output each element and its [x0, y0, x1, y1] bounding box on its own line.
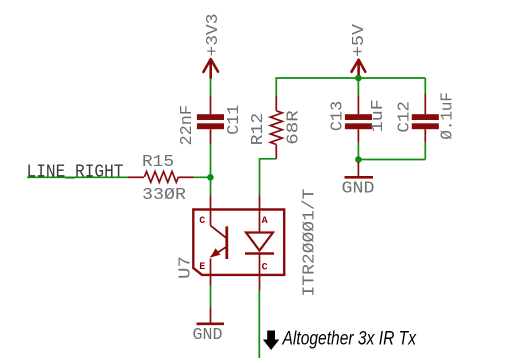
svg-text:22nF: 22nF	[177, 105, 196, 146]
svg-text:R15: R15	[142, 152, 174, 171]
power symbol +5V	[349, 24, 368, 76]
wire C11 to junction	[210, 144, 212, 178]
LED cathode bar	[245, 252, 274, 255]
svg-text:Altogether 3x IR Tx: Altogether 3x IR Tx	[282, 328, 418, 349]
wire R15 to junction	[194, 176, 211, 178]
wire C13 to bottom junction	[357, 142, 359, 160]
wire U7 emitter to GND	[210, 285, 212, 308]
optocoupler U7 ITR20001/T	[176, 188, 319, 296]
junction node at C13 bottom	[355, 156, 362, 163]
annotation arrow (black down arrow)	[263, 331, 279, 351]
power symbol +3V3	[203, 14, 222, 79]
phototransistor emitter line	[211, 247, 227, 258]
junction node at R15/C11	[207, 174, 214, 181]
svg-text:1uF: 1uF	[368, 99, 387, 132]
phototransistor bar	[225, 226, 228, 259]
wire +3V3 to C11	[210, 78, 212, 96]
svg-text:+5V: +5V	[349, 24, 368, 57]
svg-text:33ØR: 33ØR	[142, 185, 186, 204]
wire +5V rail	[276, 78, 425, 96]
phototransistor collector line	[211, 226, 227, 239]
wire junction to U7 pin C	[210, 177, 212, 195]
svg-text:E: E	[199, 262, 205, 273]
svg-text:C11: C11	[224, 105, 243, 135]
svg-text:LINE_RIGHT: LINE_RIGHT	[27, 163, 124, 183]
svg-text:R12: R12	[248, 113, 267, 146]
LED triangle	[246, 233, 273, 251]
capacitor C12 0.1uF	[395, 78, 457, 160]
capacitor C13 1uF	[328, 96, 388, 143]
LED anode pin lead	[259, 196, 261, 233]
net label LINE_RIGHT	[27, 163, 124, 183]
wire R12 to U7 pin A	[260, 159, 277, 196]
svg-text:GND: GND	[342, 179, 375, 198]
ground symbol GND (U7 emitter)	[193, 308, 225, 345]
svg-text:+3V3: +3V3	[203, 14, 222, 57]
wire U7 cathode to bottom edge	[258, 291, 260, 358]
U7 box outline	[193, 210, 284, 275]
LED cathode pin lead	[259, 254, 261, 291]
resistor R12 68R	[248, 96, 303, 159]
annotation text	[282, 328, 418, 349]
wire LINE_RIGHT	[27, 176, 129, 178]
ground symbol GND (supply)	[342, 162, 375, 198]
U7 pin lead bottom-left (emitter)	[210, 259, 212, 286]
resistor R15 330R	[128, 152, 194, 204]
svg-text:C13: C13	[328, 101, 347, 132]
svg-text:68R: 68R	[284, 110, 303, 145]
svg-text:Ø.1uF: Ø.1uF	[438, 92, 457, 140]
capacitor C11 22nF	[177, 96, 243, 146]
svg-text:GND: GND	[193, 325, 223, 344]
svg-text:C: C	[199, 216, 205, 227]
emitter arrow head	[210, 248, 220, 257]
svg-text:C12: C12	[395, 101, 414, 133]
U7 pin lead top-left (collector)	[210, 196, 212, 226]
svg-text:U7: U7	[176, 256, 195, 279]
wire +5V to C13	[357, 78, 359, 96]
svg-text:C: C	[262, 263, 268, 274]
junction node at +5V	[355, 75, 362, 82]
svg-text:A: A	[262, 216, 268, 227]
wire bottom rail to C12	[358, 159, 425, 161]
svg-text:ITR2ØØØ1/T: ITR2ØØØ1/T	[300, 188, 319, 296]
